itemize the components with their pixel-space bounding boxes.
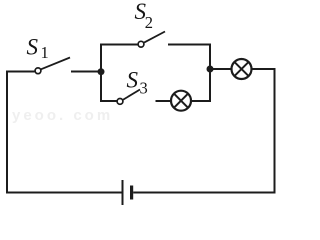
label S2 [135, 0, 154, 32]
wire top branch right [168, 44, 211, 46]
svg-text:yeoo. com: yeoo. com [12, 107, 113, 124]
wire node B to lamp L2 [210, 68, 232, 70]
switch S2 [138, 32, 165, 48]
svg-text:S: S [127, 68, 139, 93]
switch S3 [117, 90, 140, 105]
svg-text:S: S [27, 35, 39, 60]
lamp L1 [171, 91, 191, 111]
lamp L2 [232, 59, 252, 79]
svg-text:1: 1 [41, 43, 49, 62]
label S3 [127, 68, 148, 98]
wire right branch vertical [209, 44, 211, 103]
wire bottom branch left [100, 100, 117, 102]
wire bottom left [6, 192, 123, 194]
node B junction [207, 66, 214, 73]
switch S1 [35, 58, 70, 74]
wire right vertical [274, 69, 276, 194]
svg-text:3: 3 [140, 79, 148, 98]
wire top left to switch S1 [6, 71, 35, 73]
battery short plate (-) [130, 186, 133, 200]
battery long plate (+) [122, 180, 124, 205]
svg-text:2: 2 [145, 13, 153, 32]
wire bottom right [133, 192, 275, 194]
label S1 [27, 35, 49, 63]
wire left branch vertical [100, 44, 102, 103]
node A junction [98, 68, 105, 75]
wire lamp L2 to right corner [252, 68, 276, 70]
wire switch S1 to node A [71, 71, 101, 73]
wire top branch left [100, 44, 138, 46]
wire lamp L1 to right branch [192, 100, 212, 102]
wire switch S3 to lamp L1 [156, 100, 172, 102]
wire left vertical [6, 71, 8, 194]
